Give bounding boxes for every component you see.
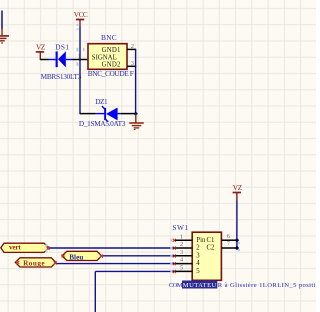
svg-text:VZ: VZ [233, 183, 243, 192]
svg-text:DS1: DS1 [55, 43, 69, 52]
svg-text:3: 3 [196, 252, 200, 259]
svg-text:C1: C1 [207, 237, 215, 244]
svg-text:DZ1: DZ1 [95, 97, 108, 106]
svg-text:R à Glissière 1LORLIN_5 positi: R à Glissière 1LORLIN_5 positi [218, 282, 316, 289]
svg-text:2: 2 [180, 241, 183, 248]
svg-text:BNC_COUDE F: BNC_COUDE F [88, 69, 134, 78]
svg-text:5: 5 [180, 265, 183, 272]
svg-text:2: 2 [131, 43, 134, 50]
svg-text:VCC: VCC [74, 10, 88, 19]
svg-text:GND2: GND2 [102, 62, 121, 69]
svg-text:Pin: Pin [196, 237, 206, 244]
svg-text:1: 1 [180, 233, 183, 240]
svg-text:COM: COM [169, 282, 183, 289]
svg-text:MUTATEU: MUTATEU [183, 282, 217, 289]
svg-text:1: 1 [78, 53, 81, 60]
svg-text:3: 3 [131, 60, 134, 67]
svg-text:GND1: GND1 [102, 47, 121, 54]
svg-text:D_1SMA5.0AT3: D_1SMA5.0AT3 [79, 119, 126, 128]
svg-text:SW1: SW1 [172, 223, 188, 232]
svg-text:C2: C2 [207, 245, 216, 252]
svg-text:Rouge: Rouge [23, 259, 45, 267]
svg-text:7: 7 [227, 241, 230, 248]
svg-text:Bleu: Bleu [69, 253, 83, 261]
svg-text:5: 5 [196, 268, 200, 275]
svg-text:vert: vert [9, 244, 21, 252]
svg-text:VZ: VZ [36, 42, 46, 51]
svg-text:SIGNAL: SIGNAL [92, 55, 117, 62]
svg-text:6: 6 [227, 233, 230, 240]
svg-text:BNC: BNC [101, 33, 117, 42]
svg-text:4: 4 [196, 260, 200, 267]
svg-text:MBRS130LT3: MBRS130LT3 [41, 72, 82, 81]
svg-text:2: 2 [196, 245, 200, 252]
svg-text:3: 3 [180, 249, 183, 256]
